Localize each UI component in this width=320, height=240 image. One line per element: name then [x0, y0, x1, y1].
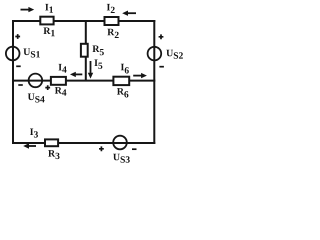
- label R2: [107, 29, 118, 38]
- label R1: [43, 28, 54, 37]
- resistor R3: [45, 139, 58, 146]
- voltage source US4: [29, 74, 43, 88]
- plus sign US3: [99, 146, 104, 151]
- voltage source US2: [148, 47, 162, 61]
- minus sign US3: [132, 148, 137, 150]
- label I4: [59, 64, 67, 73]
- label US2: [166, 50, 183, 59]
- resistor R2: [105, 17, 119, 25]
- plus sign US2: [159, 34, 164, 39]
- label I6: [121, 64, 129, 74]
- label R6: [117, 88, 128, 97]
- resistor R4: [51, 77, 66, 85]
- minus sign US2: [159, 66, 164, 68]
- wire right: [153, 20, 155, 144]
- wire left: [12, 20, 14, 144]
- label R5: [92, 46, 103, 56]
- wire middle horizontal: [12, 80, 155, 82]
- voltage source US1: [6, 47, 20, 61]
- current arrow I4: [70, 72, 82, 77]
- label R3: [48, 150, 59, 159]
- resistor R6: [113, 77, 129, 85]
- wire middle vertical branch: [85, 21, 87, 81]
- resistor R1: [40, 17, 53, 25]
- label R4: [55, 87, 67, 95]
- label US3: [113, 154, 130, 163]
- plus sign US1: [15, 34, 20, 39]
- label US1: [23, 49, 39, 58]
- label I3: [30, 129, 38, 138]
- current arrow I6: [133, 73, 147, 78]
- wire top: [12, 20, 155, 22]
- current arrow I3: [23, 143, 36, 148]
- wire bottom: [12, 142, 155, 144]
- plus sign US4: [45, 85, 50, 90]
- current arrow I2: [122, 11, 136, 16]
- voltage source US3: [113, 136, 127, 150]
- current arrow I5: [88, 61, 93, 79]
- resistor R5: [81, 44, 88, 57]
- label I2: [107, 4, 115, 13]
- label I1: [45, 4, 53, 13]
- current arrow I1: [21, 7, 35, 12]
- minus sign US1: [16, 65, 21, 67]
- label US4: [28, 94, 45, 103]
- label I5: [94, 60, 102, 69]
- minus sign US4: [18, 84, 23, 86]
